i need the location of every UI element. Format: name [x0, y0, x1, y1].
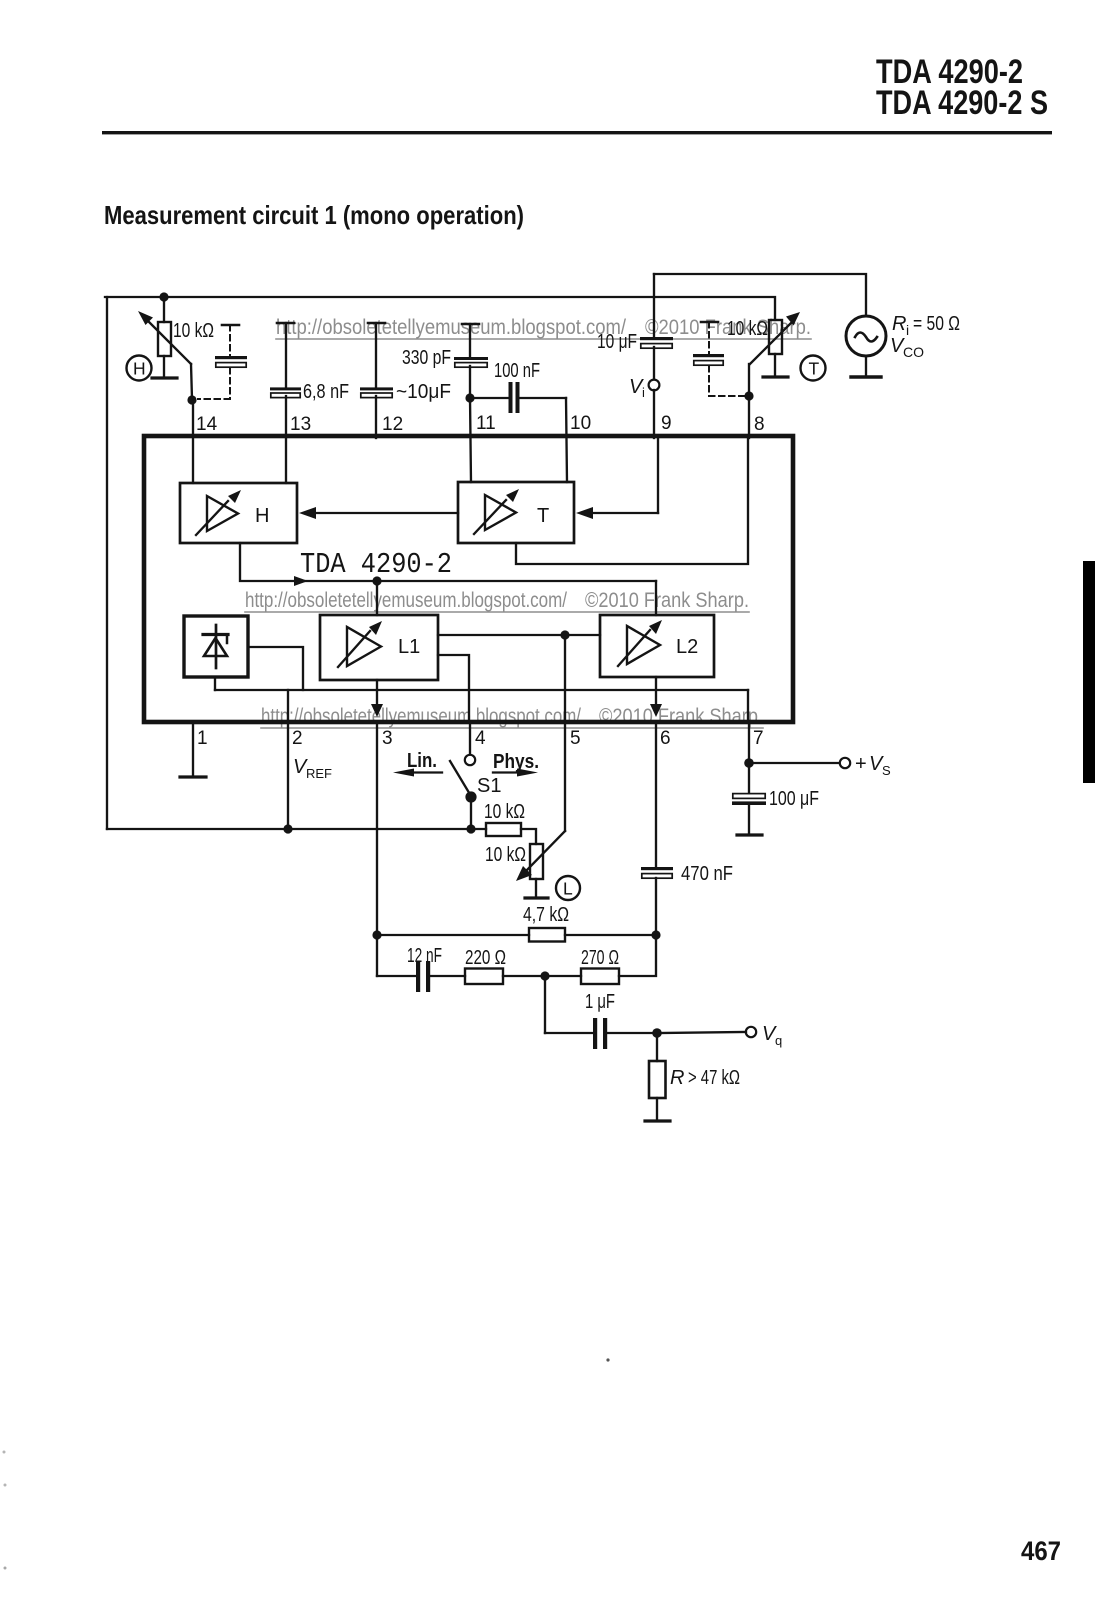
svg-text:4,7 kΩ: 4,7 kΩ: [523, 904, 569, 926]
wire pin8 inside to block T bottom: [516, 438, 748, 564]
wire pin 14: [192, 400, 194, 483]
svg-text:TDA 4290-2: TDA 4290-2: [300, 548, 452, 581]
wire VCO feed: [654, 274, 866, 316]
node 220-270: [540, 971, 549, 980]
svg-text:L2: L2: [676, 636, 698, 658]
node pin5: [560, 630, 569, 639]
wire pin9 to block T with arrow: [591, 512, 658, 514]
label Ri = 50 ohm: [892, 313, 960, 338]
svg-text:12: 12: [382, 414, 403, 435]
wire pin 11: [470, 398, 471, 482]
svg-text:i: i: [906, 322, 909, 338]
capacitor 100uF: [748, 763, 750, 793]
wire outer left border: [106, 297, 108, 829]
wire rail to pin 7 down: [747, 690, 749, 722]
potentiometer T 10k: [769, 320, 782, 354]
AC source VCO: [846, 316, 886, 356]
svg-text:R: R: [892, 313, 906, 335]
svg-text:L1: L1: [398, 636, 420, 658]
svg-text:Phys.: Phys.: [493, 751, 539, 773]
node pin3 4.7k rail: [372, 930, 381, 939]
wire VCO to ground: [865, 356, 867, 377]
terminal circle T: [801, 356, 826, 381]
resistor R>47k: [656, 1033, 658, 1061]
wire pin 8: [748, 396, 750, 438]
pin 4 external switch S1: [469, 722, 471, 754]
wire to Vq terminal: [657, 1032, 746, 1033]
wire into L2 top: [655, 581, 657, 615]
svg-text:©2010 Frank Sharp.: ©2010 Frank Sharp.: [599, 705, 763, 728]
block L1: [320, 615, 438, 680]
wire pot T wiper down: [748, 364, 750, 396]
svg-text:10 kΩ: 10 kΩ: [727, 318, 768, 340]
arrow L1 bottom pin 3: [376, 680, 378, 706]
diode block: [184, 616, 248, 677]
wire bottom-left rail: [107, 828, 472, 830]
watermark 3: [261, 705, 763, 728]
watermark 2: [245, 589, 749, 612]
svg-text:10: 10: [570, 413, 591, 434]
svg-text:i: i: [642, 385, 645, 400]
svg-text:~10μF: ~10μF: [396, 381, 451, 403]
svg-text:Lin.: Lin.: [407, 750, 437, 772]
arrow block T to block H: [316, 512, 458, 514]
wire internal rail to pin 7: [215, 689, 748, 691]
pin 7 external: [748, 722, 750, 763]
label VCO: [890, 335, 924, 360]
wire pin 10: [566, 398, 567, 482]
svg-text:467: 467: [1021, 1536, 1061, 1566]
svg-text:©2010 Frank Sharp.: ©2010 Frank Sharp.: [585, 589, 749, 612]
svg-text:S: S: [882, 763, 891, 778]
svg-text:Measurement circuit 1 (mono op: Measurement circuit 1 (mono operation): [104, 200, 524, 230]
svg-text:> 47 kΩ: > 47 kΩ: [688, 1067, 740, 1089]
svg-text:9: 9: [661, 413, 672, 434]
svg-text:= 50 Ω: = 50 Ω: [913, 313, 960, 335]
terminal circle L: [556, 876, 580, 900]
svg-text:H: H: [255, 505, 269, 527]
svg-text:4: 4: [475, 728, 486, 749]
resistor 10k horizontal: [471, 828, 486, 830]
resistor 270: [545, 975, 581, 977]
stray mark: [606, 1358, 609, 1361]
svg-text:10 kΩ: 10 kΩ: [485, 844, 526, 866]
svg-text:T: T: [537, 505, 549, 527]
right edge black tab: [1083, 561, 1095, 783]
capacitor 1uF: [544, 976, 546, 1033]
wire pin 5 inside: [564, 635, 566, 722]
capacitor dashed T side: [701, 321, 718, 324]
wire outer top border: [105, 297, 775, 320]
capacitor 470nF pin 6: [655, 722, 657, 867]
svg-text:11: 11: [476, 413, 496, 434]
svg-text:6: 6: [660, 728, 671, 749]
svg-text:12 nF: 12 nF: [407, 945, 442, 967]
svg-text:2: 2: [292, 728, 303, 749]
wire block H bottom distribution: [240, 543, 656, 581]
node L1 top: [372, 576, 381, 585]
wire diode bottom: [214, 677, 216, 690]
pin 3 external: [376, 722, 378, 976]
node top of pot H: [159, 292, 168, 301]
wire to +VS terminal: [749, 762, 839, 764]
svg-text:L: L: [563, 879, 573, 899]
capacitor 10uF pin9: [653, 274, 655, 337]
svg-text:8: 8: [754, 414, 765, 435]
resistor 4.7k: [377, 934, 529, 936]
pin 2 external: [287, 722, 289, 829]
svg-text:14: 14: [196, 414, 218, 435]
wire L1 stub to pin 4: [438, 655, 469, 722]
watermark 1: [276, 316, 811, 339]
wire diode to rail: [248, 647, 303, 690]
svg-text:10 μF: 10 μF: [597, 331, 637, 353]
block L2: [600, 615, 714, 677]
svg-text:13: 13: [290, 414, 311, 435]
svg-text:http://obsoletetellyemuseum.bl: http://obsoletetellyemuseum.blogspot.com…: [261, 705, 581, 728]
svg-text:100 nF: 100 nF: [494, 360, 540, 382]
svg-text:R: R: [670, 1067, 684, 1089]
node pin8 junction: [744, 391, 753, 400]
svg-text:+: +: [855, 753, 867, 775]
node pin14 junction: [187, 395, 196, 404]
ground VCO: [851, 375, 881, 378]
label VREF: [293, 756, 332, 781]
resistor 220: [465, 969, 503, 985]
svg-text:T: T: [809, 359, 820, 379]
wire pin 9: [653, 390, 655, 438]
capacitor 6.8nF pin13: [277, 322, 294, 325]
svg-text:S1: S1: [477, 775, 501, 797]
capacitor 330pF pin11: [462, 323, 479, 326]
potentiometer L 10k: [530, 844, 543, 879]
capacitor ~10uF pin12: [368, 322, 385, 325]
wire into L1 top: [376, 581, 378, 615]
node Vq branch: [652, 1028, 662, 1038]
svg-text:5: 5: [570, 728, 581, 749]
terminal Vi: [649, 380, 660, 391]
capacitor 100nF: [470, 397, 508, 399]
block T: [458, 482, 574, 543]
pin 1 external with ground: [192, 722, 194, 776]
arrow L2 bottom pin 6: [655, 677, 657, 706]
IC box TDA4290-2: [144, 436, 793, 722]
svg-text:TDA 4290-2 S: TDA 4290-2 S: [876, 84, 1048, 122]
svg-text:10 kΩ: 10 kΩ: [484, 801, 525, 823]
node pin2 rail: [283, 824, 292, 833]
svg-text:270 Ω: 270 Ω: [581, 947, 619, 969]
svg-text:http://obsoletetellyemuseum.bl: http://obsoletetellyemuseum.blogspot.com…: [276, 316, 626, 339]
svg-text:470 nF: 470 nF: [681, 863, 733, 885]
capacitor dashed H side: [222, 324, 239, 327]
terminal circle H: [127, 356, 152, 381]
wire rail to pin 2: [287, 690, 289, 722]
potentiometer H 10k: [163, 297, 165, 322]
svg-text:q: q: [775, 1033, 782, 1048]
svg-text:1 μF: 1 μF: [585, 991, 615, 1013]
node pin11: [465, 393, 474, 402]
capacitor 12nF: [377, 975, 416, 977]
node 470nF rail: [651, 930, 660, 939]
svg-text:http://obsoletetellyemuseum.bl: http://obsoletetellyemuseum.blogspot.com…: [245, 589, 567, 612]
svg-text:6,8 nF: 6,8 nF: [303, 381, 349, 403]
svg-text:330 pF: 330 pF: [402, 347, 451, 369]
svg-text:CO: CO: [903, 344, 924, 360]
header rule: [102, 131, 1052, 134]
svg-text:220 Ω: 220 Ω: [465, 947, 506, 969]
wire L1 to L2: [438, 634, 600, 636]
svg-text:3: 3: [382, 728, 393, 749]
block H: [180, 483, 297, 543]
svg-text:100 μF: 100 μF: [769, 788, 819, 810]
svg-text:H: H: [133, 359, 146, 379]
pin 5 wiper arrow: [564, 722, 566, 831]
svg-text:REF: REF: [306, 766, 332, 781]
svg-text:7: 7: [753, 728, 764, 749]
svg-text:10 kΩ: 10 kΩ: [173, 320, 214, 342]
svg-text:1: 1: [197, 728, 208, 749]
